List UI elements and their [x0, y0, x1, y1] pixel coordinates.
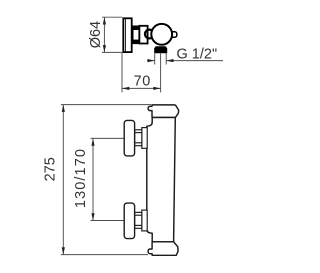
- knob 2 (handle, edge view): [124, 203, 134, 239]
- flange face line: [124, 18, 126, 52]
- dim 70 arrow right: [153, 87, 160, 90]
- knob 1 (handle, edge view): [124, 120, 134, 155]
- knob 2 step block: [142, 210, 147, 231]
- svg-text:G 1/2": G 1/2": [177, 46, 218, 62]
- outlet G 1/2 (black): [154, 46, 167, 53]
- temperature tab on right: [171, 32, 177, 37]
- dim G1/2 extension line left: [154, 53, 156, 64]
- connector nut lower band: [133, 40, 139, 44]
- bar top cap: [148, 105, 179, 118]
- dim G1/2 right outside arrow with leader to label: [166, 60, 223, 62]
- connector nut: [133, 26, 139, 43]
- wall flange (escutcheon, edge view): [123, 18, 131, 52]
- valve body block: [139, 26, 147, 44]
- cartridge small circle: [145, 30, 154, 39]
- connector nut upper band: [133, 26, 139, 30]
- dim 275 dimension line: [62, 105, 64, 255]
- dim 70 extension line right (outlet centreline): [160, 53, 162, 92]
- dim 70 arrow left: [122, 87, 129, 90]
- svg-text:130/170: 130/170: [73, 148, 89, 208]
- dim 275 arrow up: [62, 105, 65, 112]
- dim Ø64 extension line top: [102, 16, 122, 18]
- dim 275 extension line top: [61, 104, 151, 106]
- knob big circle: [151, 24, 172, 45]
- dim 130/170 extension line bottom: [91, 220, 125, 222]
- bar bottom cap: [148, 242, 178, 256]
- dim Ø64 arrow down: [103, 45, 106, 52]
- knob 1 step block: [142, 128, 147, 149]
- dim 275 arrow down: [62, 247, 65, 254]
- knob 1 stem: [135, 130, 142, 146]
- dim 70 dimension line: [122, 87, 161, 89]
- dim 70 extension line left: [121, 53, 123, 92]
- dim G1/2 extension line right: [165, 53, 167, 64]
- svg-text:Ø64: Ø64: [88, 21, 104, 48]
- dim Ø64 dimension line: [103, 17, 105, 52]
- knob 1 stem band lines: [135, 132, 142, 134]
- dim 275 extension line bottom: [61, 254, 148, 256]
- svg-text:70: 70: [134, 73, 151, 89]
- dim 130/170 dimension line: [92, 138, 94, 220]
- dim Ø64 extension line bottom: [102, 51, 122, 53]
- svg-text:275: 275: [43, 157, 59, 181]
- dim G1/2 left outside arrow with tail: [147, 60, 155, 62]
- knob 2 stem band lines: [135, 214, 142, 216]
- knob 2 stem: [135, 212, 142, 228]
- dim 130/170 extension line top: [91, 137, 125, 139]
- dim 130/170 arrow up: [91, 138, 94, 145]
- bar body: [147, 117, 176, 241]
- dim Ø64 arrow up: [103, 17, 106, 24]
- dim 130/170 arrow down: [91, 213, 94, 220]
